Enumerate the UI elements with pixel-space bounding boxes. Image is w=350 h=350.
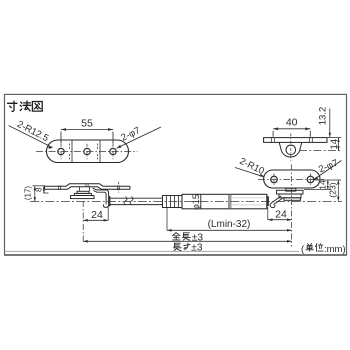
svg-text:±3: ±3 <box>191 242 203 253</box>
svg-text:2-φ7: 2-φ7 <box>317 158 340 176</box>
svg-text:40: 40 <box>286 117 298 129</box>
svg-text:(: ( <box>301 244 305 255</box>
svg-text:24: 24 <box>91 209 103 221</box>
svg-text:φ15: φ15 <box>191 194 201 210</box>
svg-text:8: 8 <box>35 187 44 192</box>
svg-text:(17): (17) <box>24 186 33 201</box>
svg-text:14: 14 <box>318 180 328 190</box>
svg-text:13.2: 13.2 <box>318 107 329 126</box>
svg-text:2-R10: 2-R10 <box>238 156 266 177</box>
svg-text::mm): :mm) <box>324 244 346 255</box>
svg-text:2-φ7: 2-φ7 <box>119 125 142 144</box>
svg-text:14: 14 <box>329 139 340 150</box>
svg-text:24: 24 <box>275 208 287 220</box>
svg-text:(Lmin-32): (Lmin-32) <box>208 219 251 230</box>
svg-text:(23): (23) <box>328 182 338 197</box>
svg-text:55: 55 <box>81 117 93 129</box>
